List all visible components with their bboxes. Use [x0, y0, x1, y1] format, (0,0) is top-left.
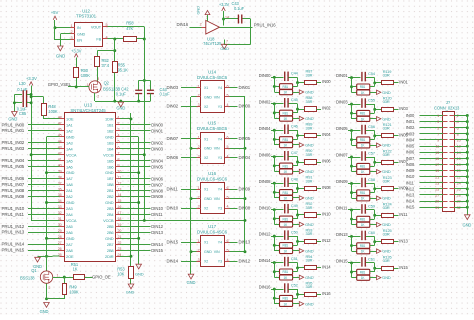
wire	[181, 261, 197, 263]
capacitor C61	[361, 257, 362, 267]
svg-text:5: 5	[227, 145, 229, 149]
wire dot1 down	[351, 131, 353, 146]
svg-text:1A5: 1A5	[66, 158, 73, 163]
wire	[317, 294, 322, 296]
svg-text:4: 4	[227, 103, 229, 107]
svg-text:GND: GND	[204, 95, 212, 99]
pin 7 VCCB	[116, 154, 121, 156]
wire R49 to GND	[64, 295, 66, 299]
svg-text:BSS138: BSS138	[20, 276, 35, 281]
svg-text:7: 7	[437, 132, 439, 136]
svg-text:5: 5	[227, 248, 229, 252]
pin 1 1DIR	[116, 118, 121, 120]
wire R52 to Q2 drain	[97, 66, 99, 81]
svg-text:3: 3	[70, 36, 72, 40]
wire	[394, 135, 399, 137]
wire	[348, 183, 361, 185]
svg-text:GND: GND	[382, 275, 391, 280]
svg-text:GND: GND	[40, 309, 49, 314]
wire DIR rail	[130, 119, 132, 266]
ground connector	[465, 215, 471, 220]
svg-text:GND: GND	[305, 169, 314, 174]
wire	[454, 152, 467, 154]
wire	[28, 142, 60, 144]
svg-text:33R: 33R	[383, 205, 390, 210]
svg-text:1B7: 1B7	[107, 176, 114, 181]
svg-text:PRU1_IN13: PRU1_IN13	[2, 230, 25, 235]
wire GND pin	[47, 136, 60, 138]
wire GND pin	[120, 202, 139, 204]
wire	[370, 171, 377, 173]
wire	[230, 157, 238, 159]
svg-text:PRU1_IN02: PRU1_IN02	[2, 140, 25, 145]
wire +3.3V to R50	[76, 57, 78, 67]
svg-text:4: 4	[227, 154, 229, 158]
wire	[293, 92, 300, 94]
svg-text:PRU1_IN07: PRU1_IN07	[2, 182, 25, 187]
wire	[230, 242, 238, 244]
pin 1 X1	[197, 242, 202, 244]
resistor network upper	[274, 165, 279, 167]
svg-text:3: 3	[118, 128, 120, 132]
svg-text:3: 3	[97, 77, 99, 81]
resistor network lower	[274, 197, 279, 199]
node	[373, 214, 376, 217]
pin 31 VCCA	[60, 220, 65, 222]
node divider	[113, 49, 116, 52]
node	[350, 261, 353, 264]
wire dot1 down	[351, 263, 353, 278]
node	[273, 155, 276, 158]
node	[466, 181, 469, 184]
node	[350, 76, 353, 79]
svg-text:25: 25	[435, 187, 439, 191]
ground arrow	[377, 90, 381, 94]
svg-text:VCCA: VCCA	[66, 152, 77, 157]
wire caps top bus	[139, 80, 151, 82]
pin 1 X1	[197, 87, 202, 89]
svg-text:0.1uF: 0.1uF	[160, 92, 171, 97]
svg-text:9: 9	[118, 163, 120, 167]
svg-text:IN11: IN11	[399, 212, 408, 217]
wire	[420, 194, 443, 196]
svg-text:DIN15: DIN15	[151, 248, 163, 253]
pin 20 2B6	[116, 232, 121, 234]
capacitor C50	[284, 230, 285, 240]
svg-text:X2: X2	[204, 206, 208, 210]
svg-text:DIN11: DIN11	[151, 212, 163, 217]
node	[466, 126, 469, 129]
svg-text:33R: 33R	[306, 205, 313, 210]
svg-text:2: 2	[198, 145, 200, 149]
svg-text:IN03: IN03	[399, 106, 408, 111]
wire +5V rail down right of U13	[144, 39, 146, 220]
wire	[374, 78, 376, 83]
pin 29 2A6	[60, 232, 65, 234]
wire	[366, 262, 375, 264]
ground arrow	[377, 143, 381, 147]
svg-text:R81: R81	[283, 270, 289, 274]
pin 32 2A4	[60, 214, 65, 216]
svg-text:2: 2	[49, 286, 51, 290]
svg-text:100K: 100K	[48, 109, 58, 114]
svg-text:GND: GND	[66, 236, 75, 241]
svg-text:DIN02: DIN02	[151, 140, 163, 145]
svg-text:33R: 33R	[383, 258, 390, 263]
wire	[293, 271, 298, 273]
svg-text:C85: C85	[19, 111, 27, 116]
svg-text:IN09: IN09	[406, 168, 415, 173]
wire VCCB pin7	[120, 154, 144, 156]
resistor network lower	[274, 277, 279, 279]
wire	[293, 224, 300, 226]
svg-text:74LVT125: 74LVT125	[203, 41, 222, 46]
wire	[348, 236, 361, 238]
capacitor C46	[284, 124, 285, 133]
svg-text:33R: 33R	[306, 258, 313, 263]
svg-text:2A7: 2A7	[66, 242, 73, 247]
capacitor C60	[361, 231, 362, 241]
svg-text:R81: R81	[360, 85, 366, 89]
wire	[366, 77, 375, 79]
svg-text:33R: 33R	[306, 99, 313, 104]
svg-text:27: 27	[435, 194, 439, 198]
svg-text:Y3: Y3	[218, 206, 222, 210]
svg-text:1: 1	[70, 24, 72, 28]
svg-text:1OE: 1OE	[66, 117, 74, 122]
svg-text:DIN11: DIN11	[167, 187, 179, 192]
svg-text:X1: X1	[204, 86, 208, 90]
wire	[454, 182, 467, 184]
svg-text:2: 2	[457, 114, 459, 118]
svg-text:U14: U14	[208, 69, 217, 74]
wire left GND rail	[46, 137, 48, 256]
svg-text:3: 3	[437, 120, 439, 124]
svg-text:1: 1	[198, 186, 200, 190]
pin 25 2OE	[60, 256, 65, 258]
node	[296, 81, 299, 84]
svg-text:IN12: IN12	[322, 238, 331, 243]
wire	[420, 201, 443, 203]
svg-text:R81: R81	[283, 191, 289, 195]
svg-text:PRU1_IN09: PRU1_IN09	[2, 194, 25, 199]
svg-text:IN02: IN02	[322, 106, 331, 111]
pin 36 2A1	[60, 190, 65, 192]
wire	[293, 245, 298, 247]
pin 1 X1	[197, 138, 202, 140]
svg-text:GND: GND	[204, 197, 212, 201]
wire	[348, 262, 361, 264]
wire +5V to U12 EN	[54, 28, 56, 40]
svg-text:VCCB: VCCB	[103, 218, 114, 223]
ground under R53	[128, 284, 134, 289]
pin 10 GND	[116, 172, 121, 174]
pin 2 GND	[197, 198, 202, 200]
wire GND pin2	[191, 96, 197, 98]
pin 12 1B8	[116, 184, 121, 186]
svg-text:5: 5	[437, 126, 439, 130]
svg-text:IN01: IN01	[399, 80, 408, 85]
svg-text:IN13: IN13	[399, 238, 408, 243]
wire	[394, 82, 399, 84]
svg-text:GND: GND	[56, 54, 65, 59]
pin 15 GND	[116, 202, 121, 204]
wire	[230, 138, 238, 140]
wire	[28, 226, 60, 228]
svg-text:DIN14: DIN14	[151, 242, 163, 247]
wire	[348, 104, 361, 106]
wire	[317, 135, 322, 137]
svg-text:22: 22	[457, 175, 461, 179]
svg-text:33R: 33R	[383, 152, 390, 157]
wire	[293, 298, 298, 300]
svg-text:1A8: 1A8	[66, 182, 73, 187]
svg-text:2B3: 2B3	[107, 206, 114, 211]
svg-text:C60: C60	[368, 230, 376, 235]
svg-text:2B5: 2B5	[107, 224, 114, 229]
wire	[454, 146, 467, 148]
svg-text:X2: X2	[204, 105, 208, 109]
wire	[28, 178, 60, 180]
resistor network upper	[352, 245, 357, 247]
svg-text:C45: C45	[291, 97, 298, 102]
svg-text:1: 1	[198, 239, 200, 243]
svg-text:1B3: 1B3	[107, 140, 114, 145]
svg-text:DVIULC6-4SC6: DVIULC6-4SC6	[197, 126, 228, 131]
svg-text:Y4: Y4	[218, 188, 222, 192]
wire DIN10	[120, 208, 151, 210]
wire	[454, 207, 467, 209]
wire GND pin2	[191, 198, 197, 200]
node cap1 right	[30, 93, 33, 96]
wire	[370, 145, 377, 147]
wire	[374, 157, 376, 162]
pin 7 GND	[224, 40, 226, 45]
wire	[230, 106, 238, 108]
svg-text:C47: C47	[291, 150, 298, 155]
pin 16 2B3	[116, 208, 121, 210]
wire dot1 down	[274, 289, 276, 304]
svg-text:PRU1_IN05: PRU1_IN05	[2, 164, 25, 169]
svg-text:100K: 100K	[81, 73, 91, 78]
svg-text:GND: GND	[305, 90, 314, 95]
pin 11 1B7	[116, 178, 121, 180]
wire	[181, 189, 197, 191]
pin 23 2B8	[116, 250, 121, 252]
wire	[28, 208, 60, 210]
svg-text:1: 1	[437, 114, 439, 118]
node	[273, 191, 276, 194]
pin 47 1A1	[60, 124, 65, 126]
svg-text:6: 6	[227, 136, 229, 140]
node	[273, 244, 276, 247]
wire	[293, 277, 300, 279]
wire	[289, 183, 298, 185]
node	[273, 208, 276, 211]
svg-text:4: 4	[118, 134, 120, 138]
svg-text:R81: R81	[283, 217, 289, 221]
wire	[454, 188, 467, 190]
wire	[420, 182, 443, 184]
wire	[28, 196, 60, 198]
wire	[370, 118, 377, 120]
wire DIN07	[120, 184, 151, 186]
wire	[370, 192, 375, 194]
svg-text:C58: C58	[368, 177, 375, 182]
node	[296, 161, 299, 164]
svg-text:2B2: 2B2	[107, 194, 114, 199]
svg-text:DIN06: DIN06	[151, 176, 163, 181]
wire GND pin2	[191, 251, 197, 253]
svg-text:1: 1	[87, 83, 89, 87]
pin 45 GND	[60, 136, 65, 138]
wire dot1 down	[351, 104, 353, 119]
svg-text:33R: 33R	[383, 73, 390, 78]
svg-text:GND: GND	[8, 117, 17, 122]
svg-text:1B8: 1B8	[107, 182, 114, 187]
svg-text:5: 5	[227, 94, 229, 98]
node	[373, 134, 376, 137]
wire	[293, 250, 300, 252]
wire	[348, 130, 361, 132]
pin 26 2A8	[60, 250, 65, 252]
svg-text:C52: C52	[291, 282, 298, 287]
svg-text:DIN08: DIN08	[259, 179, 271, 184]
node	[296, 134, 299, 137]
svg-text:1B2: 1B2	[107, 128, 114, 133]
svg-text:DVIULC6-4SC6: DVIULC6-4SC6	[197, 75, 228, 80]
node	[273, 217, 276, 220]
svg-text:10K: 10K	[117, 271, 124, 276]
svg-text:33R: 33R	[306, 284, 313, 289]
node	[273, 297, 276, 300]
svg-text:33R: 33R	[383, 126, 390, 131]
wire	[293, 171, 300, 173]
capacitor C44	[284, 72, 285, 82]
svg-text:DIN02: DIN02	[259, 99, 271, 104]
wire	[28, 166, 60, 168]
wire	[293, 165, 298, 167]
node 2OE junction	[45, 255, 48, 258]
resistor network lower	[274, 171, 279, 173]
wire DIN09	[120, 196, 151, 198]
wire dot1 down	[351, 210, 353, 225]
svg-text:GND: GND	[66, 134, 75, 139]
pin 37 1A8	[60, 184, 65, 186]
svg-text:R58: R58	[126, 20, 134, 25]
node	[373, 161, 376, 164]
pin 6 Y4	[225, 138, 230, 140]
svg-text:U15: U15	[208, 121, 217, 126]
wire R50 to VSEL line	[76, 78, 78, 87]
svg-text:GND: GND	[66, 170, 75, 175]
wire	[28, 190, 60, 192]
wire	[293, 112, 298, 114]
svg-text:R81: R81	[360, 270, 366, 274]
wire	[420, 152, 443, 154]
pin 46 1A2	[60, 130, 65, 132]
wire connector GND rail	[467, 116, 469, 215]
svg-text:GND: GND	[305, 116, 314, 121]
pin 8 1B5	[116, 160, 121, 162]
wire ground line under Q2	[95, 101, 150, 103]
svg-text:2A4: 2A4	[66, 212, 74, 217]
node	[296, 187, 299, 190]
svg-text:DIN09: DIN09	[336, 179, 348, 184]
wire	[370, 224, 377, 226]
wire	[370, 277, 377, 279]
wire	[293, 139, 298, 141]
svg-text:33R: 33R	[306, 125, 313, 130]
svg-text:IN08: IN08	[322, 185, 331, 190]
pin 6 Y4	[225, 189, 230, 191]
svg-text:PRU1_IN04: PRU1_IN04	[2, 158, 25, 163]
node	[466, 169, 469, 172]
svg-text:IN14: IN14	[406, 199, 415, 204]
wire U12 GND pin down	[60, 33, 70, 35]
node	[373, 240, 376, 243]
wire	[271, 209, 284, 211]
resistor network upper	[274, 86, 279, 88]
pin 3 X2	[197, 106, 202, 108]
svg-text:DIN13: DIN13	[336, 232, 348, 237]
svg-text:IN04: IN04	[406, 137, 415, 142]
svg-text:1A2: 1A2	[66, 128, 73, 133]
ground left of 2OE	[40, 256, 47, 258]
svg-text:IN06: IN06	[322, 159, 331, 164]
wire	[366, 209, 375, 211]
svg-text:2: 2	[97, 95, 99, 99]
svg-text:GND: GND	[305, 275, 314, 280]
wire dot1 down	[351, 78, 353, 93]
svg-text:4: 4	[227, 258, 229, 262]
svg-text:1B6: 1B6	[107, 164, 114, 169]
wire buffer out to PRU1_IN16	[220, 27, 253, 29]
wire	[297, 157, 299, 162]
svg-text:PRU1_IN14: PRU1_IN14	[2, 242, 25, 247]
svg-text:33R: 33R	[383, 179, 390, 184]
svg-text:18: 18	[457, 163, 461, 167]
wire	[293, 218, 298, 220]
svg-text:6: 6	[227, 239, 229, 243]
svg-text:GND: GND	[204, 147, 212, 151]
wire	[289, 209, 298, 211]
svg-text:2OE: 2OE	[66, 254, 74, 259]
pin 5 VIN	[225, 96, 230, 98]
svg-text:DIN09: DIN09	[151, 194, 163, 199]
node	[350, 103, 353, 106]
wire Q2 source to ground line	[94, 93, 96, 101]
wire	[454, 127, 467, 129]
wire +5V to U12 IN	[54, 20, 56, 28]
node	[466, 206, 469, 209]
wire	[370, 113, 375, 115]
svg-text:PRU1_IN01: PRU1_IN01	[2, 128, 25, 133]
wire	[317, 267, 322, 269]
wire R58 to rail	[137, 38, 145, 40]
wire	[181, 87, 197, 89]
wire DIN06	[120, 178, 151, 180]
resistor network lower	[274, 250, 279, 252]
svg-text:GND: GND	[77, 32, 85, 36]
node	[273, 164, 276, 167]
svg-text:IN05: IN05	[406, 144, 415, 149]
wire	[420, 164, 443, 166]
svg-text:2B7: 2B7	[107, 242, 114, 247]
svg-text:DIN16: DIN16	[177, 22, 189, 27]
pin 13 2B1	[116, 190, 121, 192]
svg-text:Q1: Q1	[31, 268, 37, 273]
